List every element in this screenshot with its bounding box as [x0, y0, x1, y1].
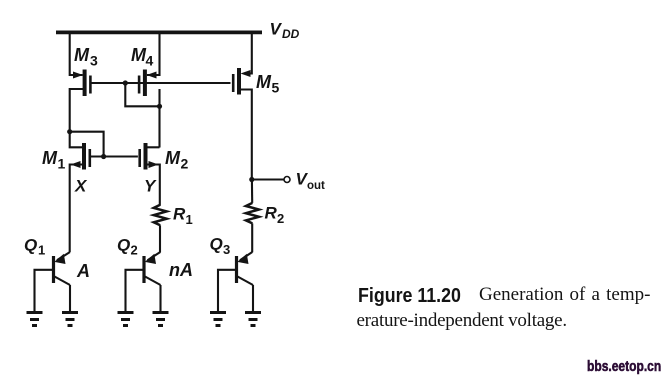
wire VDD to M5 source	[247, 32, 252, 73]
wire Vout stub	[252, 178, 284, 180]
resistor R1	[154, 205, 167, 226]
svg-text:M: M	[74, 45, 90, 65]
svg-text:1: 1	[58, 156, 66, 172]
resistor R2	[246, 203, 259, 224]
VDD label	[270, 20, 300, 42]
node gate tie M1 M2 dot	[101, 154, 106, 159]
svg-text:Q: Q	[117, 236, 130, 255]
Q1 area label A	[76, 261, 90, 281]
transistor M2	[140, 143, 159, 170]
svg-text:Y: Y	[144, 177, 157, 196]
svg-text:1: 1	[38, 243, 45, 258]
svg-text:2: 2	[277, 211, 284, 226]
wire node A1 to gate tie of M1 M2	[70, 132, 104, 157]
wire Q1 collector to ground	[69, 285, 71, 312]
ground Q1 collector	[62, 313, 78, 326]
svg-text:V: V	[270, 20, 283, 39]
node X label	[74, 177, 88, 196]
svg-text:M: M	[165, 148, 181, 168]
svg-text:2: 2	[181, 156, 189, 172]
wire M4 drain down to M2 drain	[158, 89, 160, 148]
svg-text:3: 3	[223, 242, 230, 257]
node Vout dot	[249, 177, 254, 182]
transistor M4	[139, 70, 156, 97]
M1 label	[42, 148, 66, 172]
Q2 area label nA	[169, 260, 193, 280]
Vout label	[296, 170, 326, 193]
wire R1 to Q2 emitter	[159, 225, 161, 252]
Q1 label	[24, 236, 45, 258]
caption Figure 11.20 bold	[358, 286, 461, 306]
VDD rail	[56, 31, 262, 35]
M4 label	[131, 45, 154, 69]
svg-text:M: M	[42, 148, 58, 168]
R2 label	[265, 204, 285, 227]
node gate tie dot	[123, 80, 128, 85]
ground Q3 collector	[245, 313, 261, 326]
M5 label	[256, 72, 280, 96]
wire M3 drain down to node A1	[70, 89, 83, 132]
wire M2 source to Y to R1	[147, 165, 160, 206]
svg-text:R: R	[265, 204, 278, 223]
transistor Q2	[144, 252, 161, 285]
wire gate line M1-M2	[91, 155, 138, 157]
wire Q2 collector to ground	[159, 285, 161, 312]
caption serif line 1	[479, 285, 650, 304]
wire Q3 base to ground	[218, 270, 235, 312]
Q2 label	[117, 236, 138, 258]
svg-text:X: X	[74, 177, 88, 196]
wire M1 source to X to Q1 emitter	[70, 165, 83, 253]
wire Q2 base to ground	[126, 270, 143, 312]
watermark bbs.eetop.cn	[587, 360, 661, 375]
transistor Q1	[54, 252, 71, 285]
ground Q3 base	[210, 313, 226, 326]
wire VDD to M4 source	[147, 33, 160, 75]
transistor M3	[73, 70, 90, 97]
svg-text:1: 1	[186, 212, 193, 227]
M3 label	[74, 45, 98, 69]
transistor M1	[71, 143, 90, 170]
wire Vout node to R2	[251, 180, 253, 203]
svg-text:R: R	[173, 205, 186, 224]
svg-text:Q: Q	[210, 235, 223, 254]
svg-text:M: M	[256, 72, 272, 92]
caption serif line 2	[357, 311, 567, 330]
R1 label	[173, 205, 193, 228]
wire Q3 collector to ground	[252, 285, 254, 312]
wire Q1 base to ground	[35, 270, 53, 312]
M2 label	[165, 148, 189, 172]
svg-text:A: A	[76, 261, 90, 281]
transistor Q3	[237, 252, 254, 285]
svg-text:2: 2	[131, 243, 138, 258]
wire R2 to Q3 emitter	[251, 223, 253, 252]
svg-text:3: 3	[90, 53, 98, 69]
svg-text:4: 4	[146, 53, 154, 69]
wire M5 drain down to Vout node	[241, 90, 252, 180]
ground Q1 base	[27, 313, 43, 326]
wire M1 drain to node A1	[70, 132, 83, 148]
wire M2 drain up	[147, 146, 160, 148]
svg-text:Q: Q	[24, 236, 37, 255]
svg-text:nA: nA	[169, 260, 193, 280]
Q3 label	[210, 235, 231, 258]
ground Q2 base	[118, 313, 134, 326]
wire VDD to M3 source	[70, 33, 83, 75]
transistor M5	[233, 68, 250, 95]
wire gate tie to M4 drain	[125, 83, 159, 106]
node M4 drain dot	[157, 104, 162, 109]
svg-text:DD: DD	[282, 27, 300, 41]
Vout terminal circle	[284, 177, 290, 183]
svg-text:out: out	[307, 180, 325, 192]
ground Q2 collector	[153, 313, 169, 326]
svg-text:5: 5	[272, 80, 280, 96]
node Y label	[144, 177, 157, 196]
node A1 dot	[67, 129, 72, 134]
wire gate line M3-M4-M5	[92, 82, 231, 84]
